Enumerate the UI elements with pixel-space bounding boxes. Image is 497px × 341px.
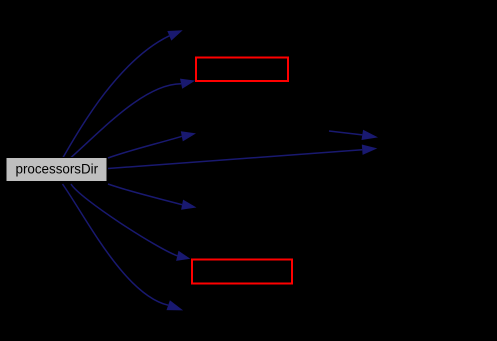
node6 red highlighted box (bottom)	[192, 260, 292, 284]
edge processorsDir -> node6 (red box 2)	[71, 184, 190, 261]
edge processorsDir -> node2 (red box 1)	[71, 79, 195, 158]
svg-text:processorsDir: processorsDir	[16, 161, 99, 176]
edge processorsDir -> node4 (far right, long)	[108, 145, 377, 169]
edge processorsDir -> node3 (middle)	[108, 131, 196, 158]
edge processorsDir -> node1 (top)	[63, 30, 183, 157]
edge processorsDir -> node7 (bottom)	[63, 184, 184, 310]
edge processorsDir -> node5 (below middle)	[108, 184, 197, 210]
edge node3 -> node4 (short, right side)	[329, 130, 378, 140]
node processorsDir (root, grey filled)	[6, 158, 107, 182]
node2 red highlighted box (top)	[196, 58, 288, 82]
